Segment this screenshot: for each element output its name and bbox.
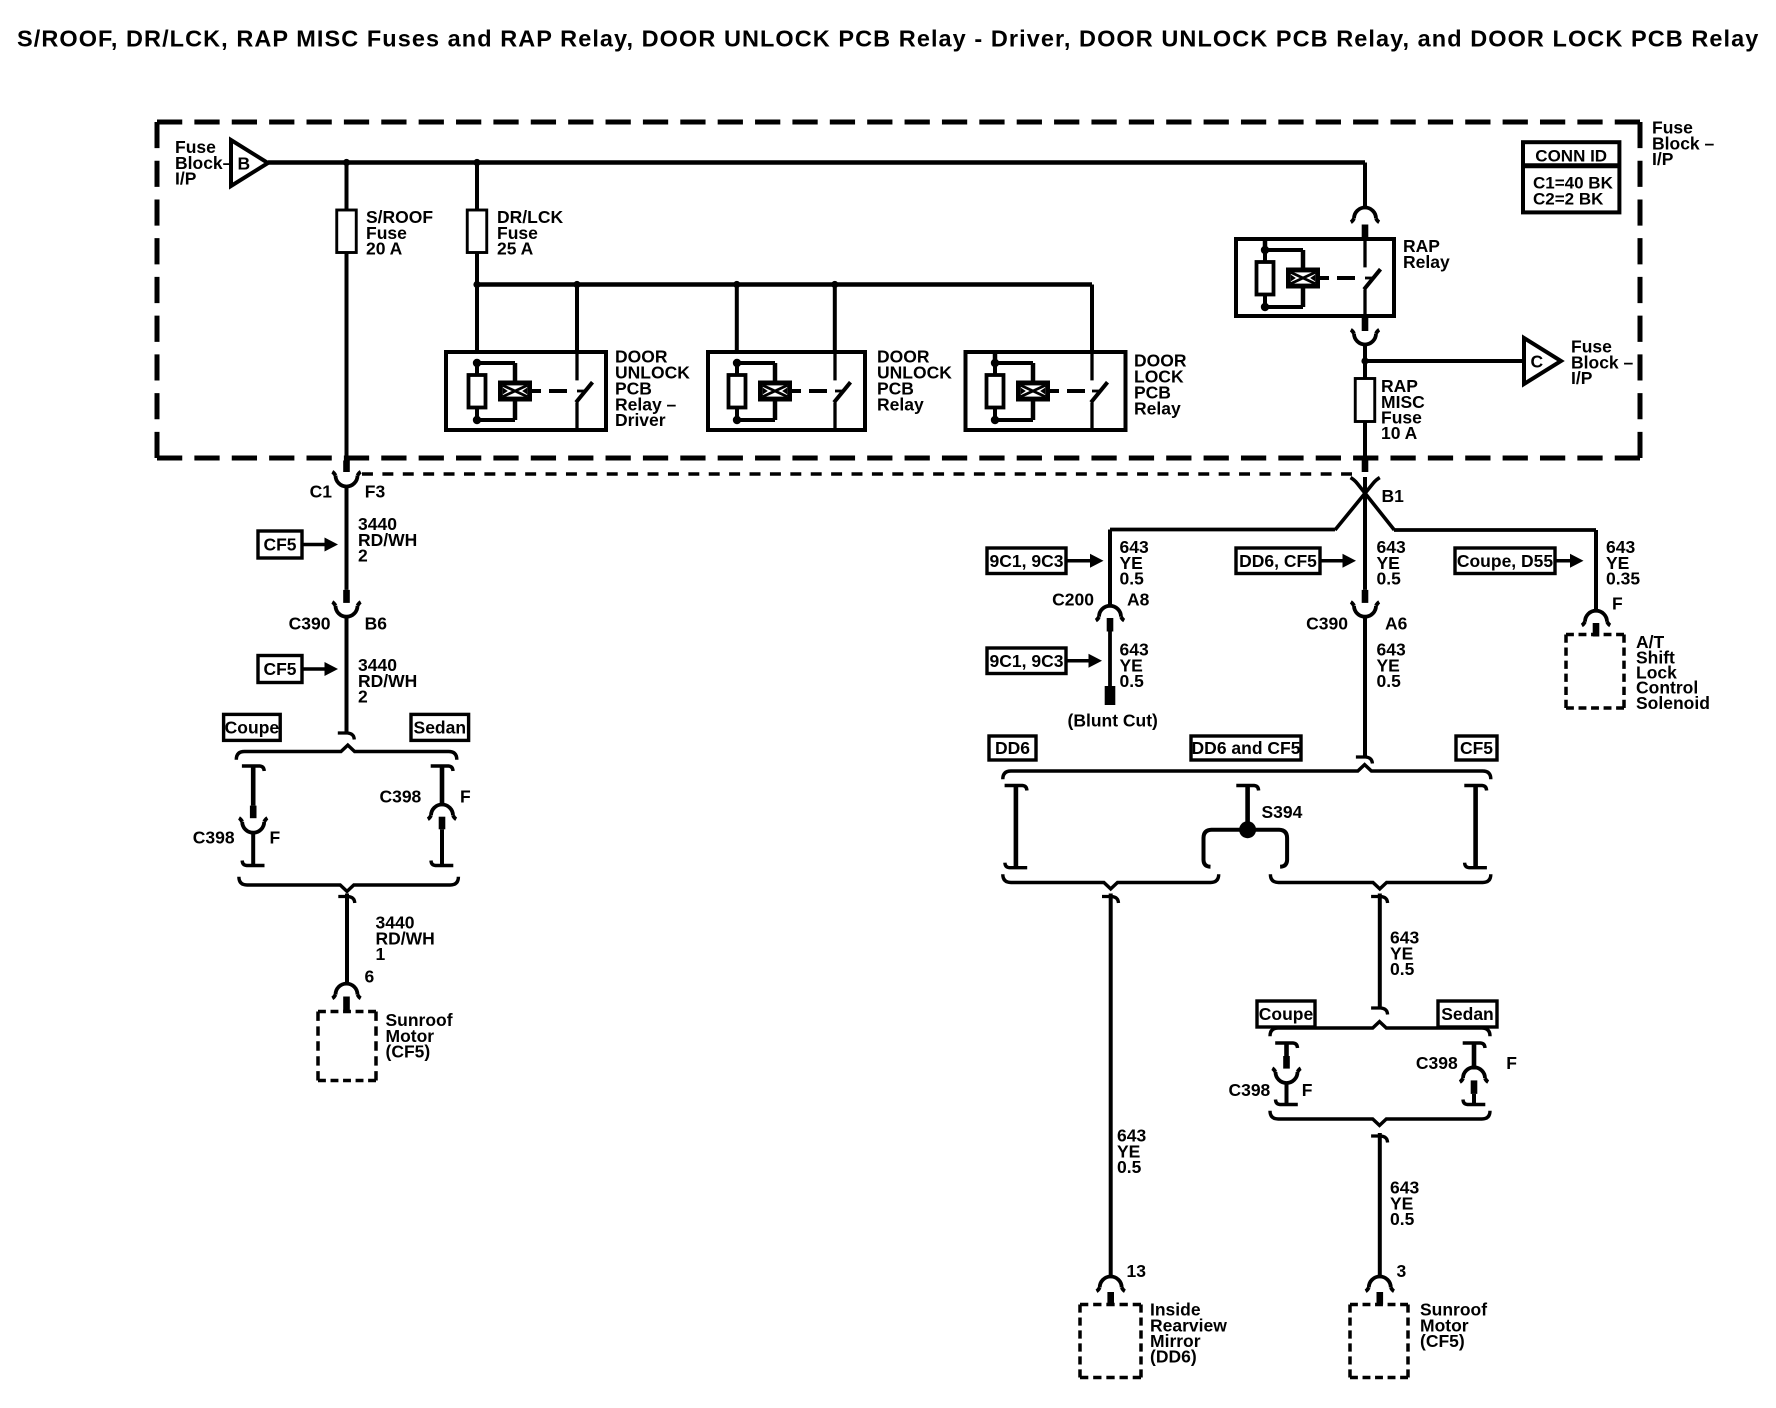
svg-text:2: 2 [358,687,368,707]
svg-text:C398: C398 [379,787,421,807]
svg-text:CF5: CF5 [1460,738,1493,758]
svg-text:0.35: 0.35 [1606,569,1640,589]
svg-text:B1: B1 [1382,486,1405,506]
svg-text:A8: A8 [1127,590,1150,610]
svg-text:0.5: 0.5 [1390,959,1415,979]
svg-text:9C1, 9C3: 9C1, 9C3 [990,551,1064,571]
svg-text:CONN ID: CONN ID [1535,146,1607,165]
svg-text:CF5: CF5 [263,535,296,555]
svg-text:DD6 and CF5: DD6 and CF5 [1192,738,1301,758]
svg-text:20 A: 20 A [366,239,403,259]
svg-text:C398: C398 [1228,1080,1270,1100]
svg-text:Sedan: Sedan [1441,1004,1494,1024]
svg-text:0.5: 0.5 [1120,569,1145,589]
svg-text:C390: C390 [289,614,331,634]
svg-text:(Blunt Cut): (Blunt Cut) [1068,711,1158,731]
svg-text:I/P: I/P [175,169,197,189]
svg-text:10 A: 10 A [1381,423,1418,443]
svg-text:C398: C398 [1416,1053,1458,1073]
svg-text:3: 3 [1397,1261,1407,1281]
svg-text:Coupe: Coupe [1259,1004,1314,1024]
svg-text:C200: C200 [1052,590,1094,610]
svg-text:25 A: 25 A [497,239,534,259]
svg-text:CF5: CF5 [263,659,296,679]
svg-text:I/P: I/P [1652,149,1674,169]
svg-text:Relay: Relay [1403,252,1450,272]
svg-text:I/P: I/P [1571,368,1593,388]
svg-text:S/ROOF, DR/LCK, RAP MISC Fuses: S/ROOF, DR/LCK, RAP MISC Fuses and RAP R… [17,26,1759,52]
svg-text:13: 13 [1127,1261,1147,1281]
svg-text:F3: F3 [365,482,386,502]
svg-text:0.5: 0.5 [1377,671,1402,691]
svg-text:Coupe: Coupe [225,718,280,738]
svg-text:2: 2 [358,546,368,566]
svg-text:DD6, CF5: DD6, CF5 [1239,551,1317,571]
svg-text:Coupe, D55: Coupe, D55 [1457,551,1554,571]
svg-text:Driver: Driver [615,410,666,430]
svg-text:Sedan: Sedan [414,718,467,738]
svg-text:S394: S394 [1262,802,1303,822]
svg-text:F: F [460,787,471,807]
svg-text:0.5: 0.5 [1120,671,1145,691]
svg-text:C: C [1531,352,1544,372]
svg-text:Solenoid: Solenoid [1636,693,1710,713]
svg-text:F: F [1506,1053,1517,1073]
svg-text:Relay: Relay [877,394,924,414]
svg-text:F: F [270,828,281,848]
svg-text:C2=2 BK: C2=2 BK [1533,189,1604,208]
svg-text:B6: B6 [365,614,388,634]
svg-text:C390: C390 [1306,614,1348,634]
svg-text:A6: A6 [1385,614,1408,634]
svg-text:F: F [1302,1080,1313,1100]
svg-text:9C1, 9C3: 9C1, 9C3 [990,651,1064,671]
svg-text:(CF5): (CF5) [386,1042,431,1062]
svg-text:C398: C398 [193,828,235,848]
svg-text:Relay: Relay [1134,398,1181,418]
svg-text:0.5: 0.5 [1377,569,1402,589]
svg-text:0.5: 0.5 [1117,1157,1142,1177]
svg-text:(DD6): (DD6) [1150,1347,1197,1367]
svg-text:1: 1 [376,944,386,964]
svg-text:F: F [1612,594,1623,614]
svg-text:0.5: 0.5 [1390,1209,1415,1229]
svg-text:B: B [238,154,251,174]
svg-text:6: 6 [365,967,375,987]
svg-text:(CF5): (CF5) [1420,1331,1465,1351]
svg-text:DD6: DD6 [995,738,1030,758]
svg-text:C1: C1 [310,482,333,502]
